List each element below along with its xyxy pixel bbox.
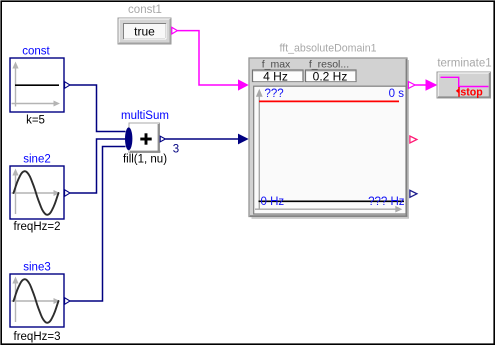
sine2 curve: [14, 171, 59, 215]
sine2 x-axis: [12, 192, 57, 194]
sine3 x-axis: [12, 300, 57, 302]
sine3 curve: [14, 279, 59, 323]
wire sine2 to multiSum input 2: [70, 139, 126, 193]
const1 body bevel: [118, 18, 171, 44]
value box f_max: [253, 70, 304, 82]
svg-text:stop: stop: [460, 86, 483, 98]
svg-text:true: true: [134, 24, 155, 38]
arrowhead into terminate1: [426, 79, 438, 90]
block terminate1 (TerminateSimulation): [437, 58, 492, 99]
svg-text:3: 3: [173, 144, 179, 156]
const x-axis: [12, 103, 57, 105]
wire const to multiSum input 1: [70, 85, 126, 132]
svg-text:sine3: sine3: [23, 262, 51, 274]
svg-text:freqHz=2: freqHz=2: [14, 221, 61, 233]
sine2 y-axis: [15, 172, 17, 214]
sine2 body: [10, 166, 64, 219]
value box f_resol: [306, 70, 357, 82]
svg-text:0.2 Hz: 0.2 Hz: [313, 69, 348, 83]
plot x-axis: [255, 208, 397, 210]
block const1 (Boolean constant): [118, 4, 177, 44]
svg-text:fill(1, nu): fill(1, nu): [123, 154, 167, 166]
svg-text:??? Hz: ??? Hz: [368, 196, 405, 208]
multiSum output connector: [160, 136, 165, 142]
fft output connector y (magenta, top right): [408, 82, 415, 89]
const body: [10, 58, 64, 112]
svg-text:freqHz=3: freqHz=3: [14, 331, 61, 343]
svg-text:0 Hz: 0 Hz: [261, 196, 285, 208]
sine3 y-axis: [15, 280, 17, 322]
plus sign: [140, 138, 151, 141]
wire multiSum to fft: [165, 138, 239, 140]
svg-text:terminate1: terminate1: [437, 58, 491, 70]
input ellipse: [125, 127, 132, 150]
svg-text:const: const: [22, 46, 50, 58]
step curve (condition): [441, 77, 489, 86]
block sine2 (Sine source): [10, 154, 70, 234]
block sine3 (Sine source): [10, 262, 70, 344]
block fft_absoluteDomain1: [249, 43, 417, 219]
svg-text:multiSum: multiSum: [121, 110, 169, 122]
svg-text:0 s: 0 s: [389, 88, 405, 100]
sine3 body: [10, 274, 64, 327]
arrowhead into fft signal input: [238, 134, 249, 145]
block const (Constant source): [10, 46, 70, 127]
svg-text:k=5: k=5: [26, 114, 45, 126]
const output connector: [65, 82, 70, 89]
arrowhead into fft u input: [238, 79, 249, 90]
const level line: [15, 84, 59, 86]
const y-axis: [15, 65, 17, 107]
svg-text:sine2: sine2: [23, 154, 51, 166]
sine2 output connector: [65, 190, 70, 197]
multiSum body: [129, 123, 160, 153]
svg-text:fft_absoluteDomain1: fft_absoluteDomain1: [280, 43, 377, 55]
red amplitude line: [259, 100, 399, 102]
red terminate marker: [458, 87, 460, 97]
const1 output connector: [172, 27, 178, 34]
wire const1 to fft (magenta): [177, 31, 239, 85]
svg-text:???: ???: [265, 88, 284, 100]
plot y-axis: [258, 94, 260, 210]
wire fft to terminate1 (magenta): [415, 84, 426, 86]
fft connector (deep pink, middle right): [410, 136, 417, 143]
sine3 output connector: [65, 298, 70, 305]
fft body panel: [249, 58, 407, 217]
wire sine3 to multiSum input 3: [70, 147, 126, 302]
plot area: [254, 86, 406, 214]
block multiSum: [121, 110, 169, 166]
black frequency line: [259, 200, 405, 202]
svg-text:const1: const1: [128, 4, 162, 16]
fft connector (blue, bottom right): [410, 190, 417, 197]
terminate1 body bevel: [437, 72, 491, 98]
svg-text:4 Hz: 4 Hz: [263, 69, 288, 83]
